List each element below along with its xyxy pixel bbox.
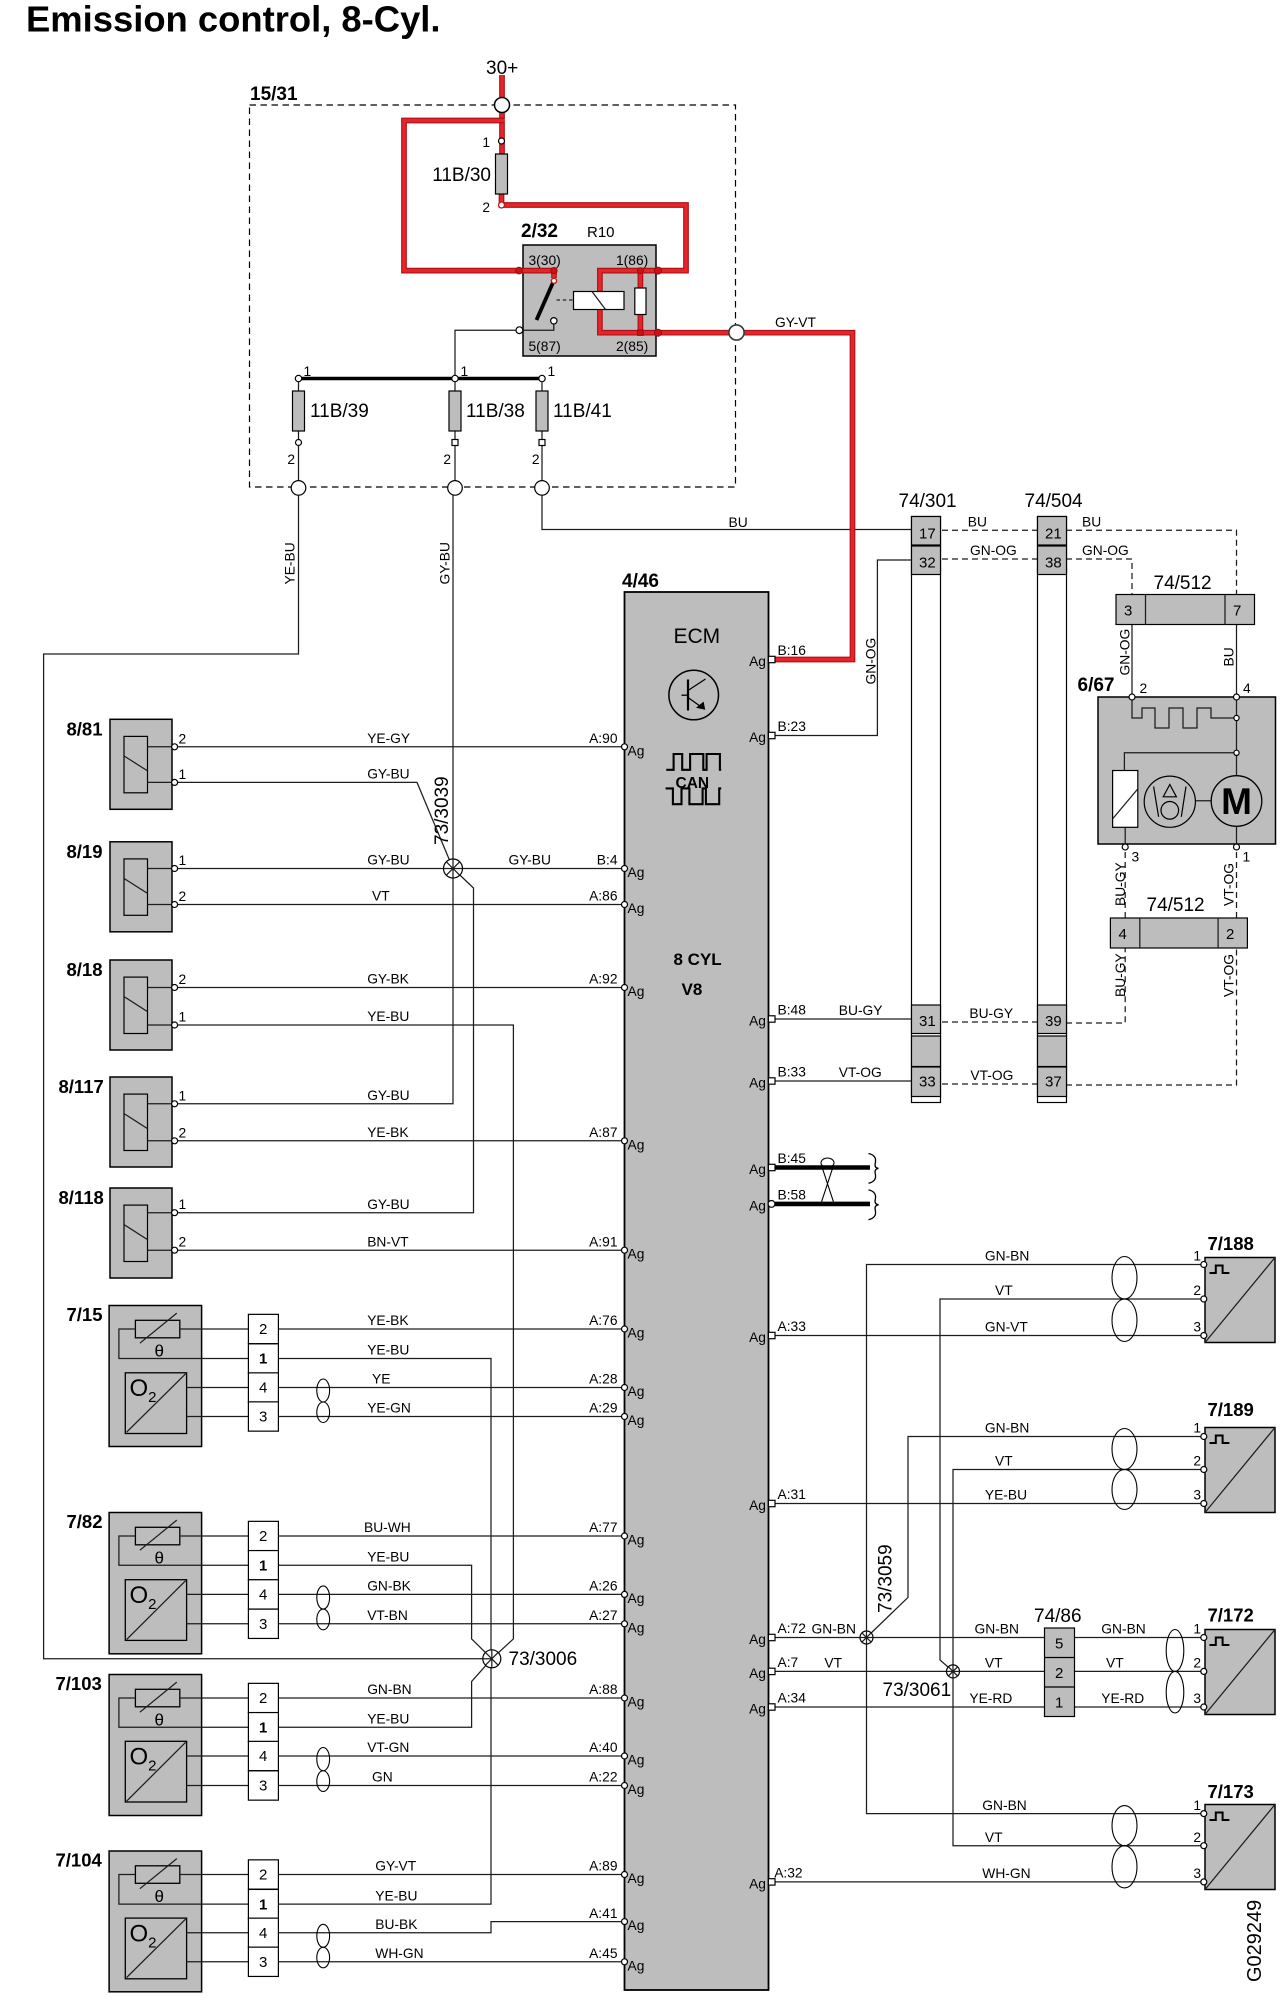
svg-text:11B/39: 11B/39: [310, 401, 369, 422]
svg-text:Ag: Ag: [749, 1632, 766, 1647]
wire GN-BN ECM A:72 through splice 73/3059 and 74/86 pin 5 to 7/172 pin 1: [775, 1637, 1204, 1639]
svg-text:M: M: [1221, 781, 1252, 822]
svg-text:3: 3: [259, 1954, 267, 1971]
ECM pin A:89: [589, 1859, 644, 1886]
continuation brace at B:45: [869, 1154, 879, 1184]
svg-text:7/103: 7/103: [56, 1673, 102, 1694]
svg-text:2: 2: [1055, 1665, 1063, 1682]
svg-text:3: 3: [1132, 850, 1140, 865]
svg-text:32: 32: [919, 555, 936, 572]
wire colour labels left half: [364, 731, 551, 1961]
svg-text:Ag: Ag: [749, 1014, 766, 1029]
wire GN-OG dashed 74/504 pin 38 to 74/512 pin 3: [1066, 559, 1132, 595]
svg-text:Ag: Ag: [749, 1076, 766, 1091]
wire 7/82 pin 2 BU-WH to ECM A:77: [278, 1535, 624, 1537]
svg-text:33: 33: [919, 1074, 936, 1091]
svg-text:4: 4: [1119, 926, 1127, 943]
wire 7/103 pin 3 GN to ECM A:22: [278, 1785, 624, 1787]
svg-text:2: 2: [1193, 1830, 1201, 1845]
splice junction 73/3059: [860, 1631, 873, 1644]
svg-text:VT-OG: VT-OG: [1222, 954, 1237, 997]
svg-text:8/19: 8/19: [67, 841, 103, 862]
bus pin 1 of 11B/38: [452, 364, 468, 382]
svg-text:1: 1: [259, 1351, 267, 1368]
svg-text:2: 2: [1193, 1283, 1201, 1298]
wire 8/117 pin 2 YE-BK to ECM A:87: [175, 1140, 625, 1142]
wire VT-OG ECM B:33 to connector 74/301 pin 33: [775, 1080, 912, 1082]
svg-text:1: 1: [179, 1088, 187, 1103]
ECM pin A:88: [589, 1682, 644, 1709]
svg-text:1: 1: [548, 364, 556, 379]
twisted wires symbol at 7/188: [1112, 1257, 1137, 1342]
node 30+ terminal circle: [495, 98, 510, 113]
6/67 internal node dots: [1234, 715, 1239, 755]
svg-text:BU: BU: [1082, 514, 1101, 529]
svg-text:2: 2: [532, 452, 540, 467]
svg-text:A:33: A:33: [778, 1319, 807, 1334]
fuse 11B/39: [293, 382, 369, 481]
svg-text:Ag: Ag: [749, 1198, 766, 1213]
svg-text:74/512: 74/512: [1147, 895, 1205, 916]
wire 7/104 pin 4 BU-BK to ECM A:41: [278, 1922, 624, 1933]
pin 2 of 7/172: [1193, 1656, 1206, 1675]
svg-text:2: 2: [259, 1528, 267, 1545]
ECM pin B:23: [749, 719, 806, 745]
svg-text:7/82: 7/82: [67, 1511, 103, 1532]
svg-text:8/81: 8/81: [67, 718, 103, 739]
connector 74/512 (lower): [1110, 918, 1247, 948]
svg-text:1(86): 1(86): [616, 253, 648, 268]
wire red GY-VT relay 2(85) to ECM B:16: [656, 333, 853, 660]
svg-text:A:34: A:34: [778, 1691, 807, 1706]
6/67 motor M symbol: [1211, 776, 1262, 844]
wire BU-GY ECM B:48 to connector 74/301 pin 31: [775, 1018, 912, 1020]
svg-text:YE-BU: YE-BU: [367, 1343, 409, 1358]
connector cells pins 2/1/4/3 of 7/15: [248, 1314, 278, 1431]
wire VT-OG dashed 74/301 pin 33 to 74/504 pin 37: [912, 1083, 1038, 1085]
node pass-through 11B/41 on 15/31 box edge: [535, 481, 550, 496]
pin 2 of 8/19: [172, 889, 187, 908]
svg-text:A:29: A:29: [589, 1401, 618, 1416]
svg-text:74/512: 74/512: [1154, 573, 1212, 594]
svg-text:1: 1: [482, 135, 490, 150]
svg-text:GN-BN: GN-BN: [985, 1249, 1029, 1264]
pin 3 of 7/173: [1193, 1866, 1206, 1885]
svg-text:Ag: Ag: [628, 1782, 645, 1797]
svg-text:Ag: Ag: [628, 901, 645, 916]
svg-text:θ: θ: [155, 1342, 164, 1361]
wire BU dashed 74/301 pin 17 to 74/504 pin 21: [912, 529, 1038, 531]
relay coil: [574, 292, 625, 310]
ECM pin A:87: [589, 1125, 644, 1152]
svg-text:θ: θ: [155, 1711, 164, 1730]
svg-text:4: 4: [259, 1748, 267, 1765]
svg-text:5(87): 5(87): [529, 339, 561, 354]
ECM pin A:45: [589, 1946, 644, 1973]
wire 7/103 pin 4 VT-GN to ECM A:40: [278, 1755, 624, 1757]
svg-text:73/3061: 73/3061: [883, 1680, 952, 1701]
svg-text:VT: VT: [985, 1830, 1003, 1845]
svg-text:BU-WH: BU-WH: [364, 1520, 411, 1535]
wire 7/15 pin 3 YE-GN to ECM A:29: [278, 1416, 624, 1418]
svg-text:17: 17: [919, 526, 936, 543]
svg-text:8/18: 8/18: [67, 959, 103, 980]
svg-text:5: 5: [1055, 1636, 1063, 1653]
splice junction 73/3061: [947, 1665, 960, 1678]
wire 8/81 pin 2 YE-GY to ECM A:90: [175, 746, 625, 748]
svg-text:74/301: 74/301: [899, 491, 957, 512]
wire GN-BN 7/189 pin 1 diagonal into splice 73/3059: [867, 1437, 1204, 1638]
svg-text:73/3059: 73/3059: [876, 1544, 897, 1613]
relay pin 5(87) terminal: [516, 327, 523, 334]
svg-text:Ag: Ag: [749, 1330, 766, 1345]
svg-text:2: 2: [259, 1321, 267, 1338]
CAN termination bar B:58: [775, 1202, 870, 1207]
connector cells pins 2/1/4/3 of 7/103: [248, 1683, 278, 1800]
svg-text:A:27: A:27: [589, 1608, 617, 1623]
relay resistor: [635, 288, 646, 315]
svg-text:YE-RD: YE-RD: [1101, 1691, 1144, 1706]
svg-text:1: 1: [1193, 1622, 1201, 1637]
svg-text:4: 4: [259, 1925, 267, 1942]
svg-text:YE-BU: YE-BU: [367, 1711, 409, 1726]
wire YE-RD ECM A:34 through 74/86 pin 1 to 7/172 pin 3: [775, 1706, 1204, 1708]
svg-text:VT: VT: [824, 1656, 842, 1671]
svg-text:A:86: A:86: [589, 889, 618, 904]
svg-text:YE-BU: YE-BU: [283, 542, 298, 584]
wire red node to fuse 11B/30 pin 1: [499, 113, 505, 155]
svg-text:2: 2: [179, 731, 187, 746]
wire VT ECM A:7 through splice 73/3061 and 74/86 pin 2 to 7/172 pin 2: [775, 1670, 1204, 1672]
svg-text:A:89: A:89: [589, 1859, 618, 1874]
svg-text:1: 1: [259, 1896, 267, 1913]
svg-text:B:48: B:48: [778, 1003, 807, 1018]
svg-text:7: 7: [1233, 603, 1241, 620]
bus pin 1 of 11B/39: [295, 364, 311, 382]
ECM pin A:33: [749, 1319, 806, 1345]
svg-text:YE-RD: YE-RD: [969, 1691, 1012, 1706]
svg-text:Ag: Ag: [628, 1753, 645, 1768]
ECM pin A:32: [749, 1865, 802, 1891]
pin 2 of 11B/41: [532, 440, 545, 468]
svg-text:GY-VT: GY-VT: [775, 315, 816, 330]
svg-text:1: 1: [179, 767, 187, 782]
svg-text:A:88: A:88: [589, 1682, 618, 1697]
wire red branch to relay 2/32 pin 3(30): [404, 121, 554, 279]
relay red junction dots: [516, 267, 662, 336]
svg-text:B:45: B:45: [778, 1151, 807, 1166]
wire 7/103 pin 2 GN-BN to ECM A:88: [278, 1697, 624, 1699]
svg-text:3: 3: [1124, 603, 1132, 620]
svg-text:39: 39: [1045, 1013, 1062, 1030]
svg-text:1: 1: [179, 1010, 187, 1025]
svg-text:1: 1: [179, 853, 187, 868]
svg-text:74/504: 74/504: [1025, 491, 1084, 512]
svg-text:θ: θ: [155, 1549, 164, 1568]
CAN termination bar B:45: [775, 1165, 870, 1170]
svg-text:3: 3: [259, 1778, 267, 1795]
ECM pin A:76: [589, 1313, 644, 1340]
wire GN-VT ECM A:33 to 7/188 pin 3: [775, 1335, 1204, 1337]
component 8/118 (injection valve): [110, 1188, 172, 1278]
wire pump to motor: [1195, 800, 1211, 802]
wire YE-BU net from fuse 11B/39 down left side to splice 73/3006: [44, 495, 492, 1659]
svg-text:Ag: Ag: [628, 1958, 645, 1973]
ECM control module 4/46 box: [625, 592, 769, 1990]
wire GN-OG dashed 74/301 pin 32 to 74/504 pin 38: [912, 558, 1038, 560]
wire GN-OG 74/512 pin 3 to 6/67 pin 2: [1131, 625, 1133, 694]
svg-text:30+: 30+: [486, 58, 518, 79]
svg-text:Ag: Ag: [628, 1533, 645, 1548]
svg-text:GN-OG: GN-OG: [864, 638, 879, 685]
splice junction 73/3039: [444, 859, 463, 878]
wire colour labels right half: [812, 514, 1146, 1881]
svg-text:VT: VT: [985, 1656, 1003, 1671]
svg-text:A:7: A:7: [778, 1655, 799, 1670]
svg-text:B:4: B:4: [597, 853, 618, 868]
svg-text:1: 1: [179, 1197, 187, 1212]
svg-text:2: 2: [179, 1235, 187, 1250]
svg-text:Emission control, 8-Cyl.: Emission control, 8-Cyl.: [26, 0, 441, 40]
svg-text:VT-BN: VT-BN: [367, 1608, 408, 1623]
CAN bus symbol upper square wave: [666, 754, 721, 770]
pin 2 of 7/189: [1193, 1454, 1206, 1473]
relay switch stationary contact: [551, 318, 557, 324]
component 7/82 (heated oxygen sensor): [109, 1513, 248, 1654]
wire 7/15 pin 1 YE-BU down through splice 73/3006 to 7/104 pin 1: [278, 1359, 491, 1905]
svg-text:GN: GN: [372, 1770, 393, 1785]
svg-text:Ag: Ag: [749, 1702, 766, 1717]
component 8/81 (injection valve): [110, 719, 172, 809]
svg-text:4: 4: [1243, 681, 1251, 696]
svg-text:GN-BN: GN-BN: [1101, 1622, 1145, 1637]
6/67 internal heater element square wave: [1132, 700, 1237, 728]
svg-text:2: 2: [259, 1690, 267, 1707]
svg-text:Ag: Ag: [628, 1620, 645, 1635]
svg-text:YE-GY: YE-GY: [367, 731, 410, 746]
svg-text:A:26: A:26: [589, 1579, 618, 1594]
wire 5(87) to fuse bus: [455, 330, 516, 376]
wire red relay coil loop 1(86)-2(85): [600, 271, 658, 333]
svg-text:WH-GN: WH-GN: [375, 1946, 423, 1961]
svg-text:A:90: A:90: [589, 731, 618, 746]
svg-text:A:77: A:77: [589, 1520, 617, 1535]
pin 2 of 11B/39: [287, 440, 301, 468]
wire BU-GY dashed 74/301 pin 31 to 74/504 pin 39: [912, 1021, 1038, 1023]
wire 7/15 pin 4 YE to ECM A:28: [278, 1387, 624, 1389]
svg-text:4: 4: [259, 1380, 267, 1397]
svg-text:3: 3: [259, 1616, 267, 1633]
6/67 pin 4 internal lead: [1236, 700, 1238, 776]
svg-text:Ag: Ag: [749, 1162, 766, 1177]
twisted wires symbol at 7/173: [1112, 1806, 1137, 1888]
svg-text:3: 3: [1193, 1320, 1201, 1335]
svg-text:BU-GY: BU-GY: [1113, 953, 1128, 997]
svg-text:Ag: Ag: [628, 1384, 645, 1399]
pin 1 of 8/19: [172, 853, 187, 872]
svg-text:VT-OG: VT-OG: [970, 1068, 1013, 1083]
ECM pin A:28: [589, 1372, 644, 1399]
svg-text:GN-OG: GN-OG: [970, 543, 1017, 558]
wire YE-BU ECM A:31 to 7/189 pin 3: [775, 1503, 1204, 1505]
svg-text:11B/38: 11B/38: [466, 401, 525, 422]
connector 74/86 cells: [1045, 1628, 1075, 1717]
wire WH-GN ECM A:32 to 7/173 pin 3: [775, 1881, 1204, 1883]
wire GN-OG ECM B:23 to connector 74/301 pin 32: [775, 560, 912, 736]
svg-text:2: 2: [179, 972, 187, 987]
6/67 pump symbol: [1144, 776, 1195, 827]
wire VT 7/188 pin 2 down into splice 73/3061: [940, 1299, 1204, 1671]
svg-text:A:22: A:22: [589, 1770, 617, 1785]
svg-text:B:58: B:58: [778, 1187, 807, 1202]
connector 74/512 (upper): [1116, 595, 1255, 625]
ECM pin B:4: [597, 853, 645, 880]
svg-text:A:87: A:87: [589, 1125, 617, 1140]
twisted wires symbol at 7/172: [1166, 1630, 1184, 1713]
transistor symbol inside ECM: [669, 670, 719, 720]
pin 1 of 7/173: [1193, 1798, 1206, 1817]
pin 2 of 8/118: [172, 1235, 187, 1254]
svg-text:Ag: Ag: [628, 1326, 645, 1341]
node pass-through 11B/39 on 15/31 box edge: [291, 481, 306, 496]
fuse 11B/41: [536, 382, 612, 481]
wire BU dashed 74/504 pin 21 to 74/512 pin 7: [1066, 530, 1237, 594]
svg-text:2/32: 2/32: [521, 221, 558, 242]
svg-text:Ag: Ag: [628, 743, 645, 758]
svg-text:BU-GY: BU-GY: [969, 1006, 1013, 1021]
connector 74/301 column: [912, 517, 941, 1103]
wire relay contact to pin 5(87): [523, 324, 554, 330]
ECM pin B:48: [749, 1003, 806, 1029]
svg-text:GY-BU: GY-BU: [367, 1088, 409, 1103]
ECM pin A:72: [749, 1621, 806, 1647]
svg-text:2: 2: [179, 1125, 187, 1140]
svg-text:2: 2: [259, 1867, 267, 1884]
svg-text:1: 1: [1243, 850, 1251, 865]
pin 2 of 7/173: [1193, 1830, 1206, 1849]
CAN pair twist symbol: [821, 1158, 834, 1202]
ECM pin B:33: [749, 1065, 806, 1091]
svg-text:2: 2: [1193, 1454, 1201, 1469]
svg-text:YE-BU: YE-BU: [985, 1488, 1027, 1503]
svg-text:GY-BU: GY-BU: [438, 542, 453, 584]
ECM pin A:40: [589, 1740, 644, 1767]
pin 1 of 8/81: [172, 767, 187, 786]
component 6/67 (fuel pump unit) box: [1098, 697, 1276, 844]
svg-text:Ag: Ag: [628, 1137, 645, 1152]
wire BU 74/512 pin 7 to 6/67 pin 4: [1236, 625, 1238, 694]
svg-text:YE: YE: [372, 1372, 390, 1387]
svg-text:8/117: 8/117: [59, 1076, 104, 1097]
ECM pin A:31: [749, 1487, 806, 1513]
svg-text:Ag: Ag: [628, 1591, 645, 1606]
component 7/189 (solenoid valve): [1205, 1428, 1275, 1513]
pin 1 of 7/188: [1193, 1249, 1206, 1268]
ECM pin A:7: [749, 1655, 798, 1681]
wire 8/18 pin 2 GY-BK to ECM A:92: [175, 987, 625, 989]
svg-text:3: 3: [259, 1409, 267, 1426]
wire 7/104 pin 2 GY-VT to ECM A:89: [278, 1874, 624, 1876]
svg-text:7/172: 7/172: [1208, 1605, 1254, 1626]
splice junction 73/3006: [483, 1650, 501, 1668]
pin 1 of 7/172: [1193, 1622, 1206, 1641]
svg-text:VT: VT: [995, 1454, 1013, 1469]
ECM pin A:86: [589, 889, 644, 916]
wire 8/118 pin 1 GY-BU up to splice 73/3039: [175, 869, 474, 1213]
wire GN-BN 7/188 pin 1 through splice 73/3059 to 7/173 pin 1: [867, 1265, 1204, 1814]
svg-text:GY-VT: GY-VT: [375, 1859, 416, 1874]
svg-text:GN-BN: GN-BN: [367, 1682, 411, 1697]
svg-text:2(85): 2(85): [616, 339, 648, 354]
svg-text:GN-BN: GN-BN: [975, 1622, 1019, 1637]
svg-text:A:91: A:91: [589, 1234, 617, 1249]
svg-text:BU: BU: [729, 515, 748, 530]
6/67 internal wire to solenoid: [1124, 753, 1236, 771]
svg-text:1: 1: [1193, 1249, 1201, 1264]
svg-text:GN-BN: GN-BN: [985, 1421, 1029, 1436]
ECM pin A:90: [589, 731, 644, 758]
relay coil link dashed: [557, 299, 574, 301]
wire 8/19 pin 2 VT to ECM A:86: [175, 904, 625, 906]
pin 1 of 8/117: [172, 1088, 187, 1107]
svg-text:GY-BK: GY-BK: [367, 972, 409, 987]
connector cells pins 2/1/4/3 of 7/104: [248, 1860, 278, 1977]
svg-text:Ag: Ag: [628, 1871, 645, 1886]
svg-text:B:23: B:23: [778, 719, 807, 734]
wire VT-OG dashed 74/504 pin 37 to 74/512 pin 2: [1066, 948, 1237, 1085]
wire red fuse 11B/30 pin 2 to relay 2/32 pin 1(86): [502, 194, 687, 271]
svg-text:2: 2: [1140, 681, 1148, 696]
svg-text:A:76: A:76: [589, 1313, 618, 1328]
svg-text:A:45: A:45: [589, 1946, 618, 1961]
component 8/18 (injection valve): [110, 960, 172, 1050]
svg-text:YE-BU: YE-BU: [367, 1009, 409, 1024]
svg-text:V8: V8: [682, 980, 703, 999]
svg-text:Ag: Ag: [749, 654, 766, 669]
ECM pin A:27: [589, 1608, 644, 1635]
twisted-pair symbol of 7/82: [317, 1586, 330, 1630]
svg-text:GN-BN: GN-BN: [982, 1798, 1026, 1813]
svg-text:31: 31: [919, 1013, 936, 1030]
svg-text:7/15: 7/15: [67, 1304, 103, 1325]
svg-text:A:40: A:40: [589, 1740, 618, 1755]
component 7/15 (heated oxygen sensor): [109, 1306, 248, 1447]
svg-text:YE-GN: YE-GN: [367, 1401, 411, 1416]
fuse 11B/38: [449, 382, 525, 481]
wire 7/82 pin 4 GN-BK to ECM A:26: [278, 1593, 624, 1595]
svg-text:VT-OG: VT-OG: [1222, 863, 1237, 906]
svg-text:3: 3: [1193, 1866, 1201, 1881]
ECM pin A:34: [749, 1691, 806, 1717]
ECM pin A:29: [589, 1401, 644, 1428]
wire red through relay resistor: [638, 271, 644, 333]
svg-text:2: 2: [1193, 1656, 1201, 1671]
wire 7/104 pin 3 WH-GN to ECM A:45: [278, 1961, 624, 1963]
wire 7/103 pin 1 YE-BU into splice 73/3006: [278, 1659, 491, 1727]
connector cells pins 2/1/4/3 of 7/82: [248, 1521, 278, 1638]
svg-text:A:32: A:32: [774, 1865, 802, 1880]
node pass-through 11B/38 on 15/31 box edge: [448, 481, 463, 496]
svg-text:A:41: A:41: [589, 1906, 617, 1921]
svg-text:15/31: 15/31: [250, 84, 298, 105]
pin 3 of 6/67: [1122, 844, 1139, 865]
relay/fuse box 15/31 dashed outline: [250, 105, 736, 487]
wire 7/15 pin 2 YE-BK to ECM A:76: [278, 1328, 624, 1330]
pin 2 of 6/67: [1129, 681, 1147, 700]
6/67 solenoid (level sender): [1113, 771, 1138, 845]
svg-text:1: 1: [1193, 1798, 1201, 1813]
ECM pin B:45: [749, 1151, 806, 1177]
